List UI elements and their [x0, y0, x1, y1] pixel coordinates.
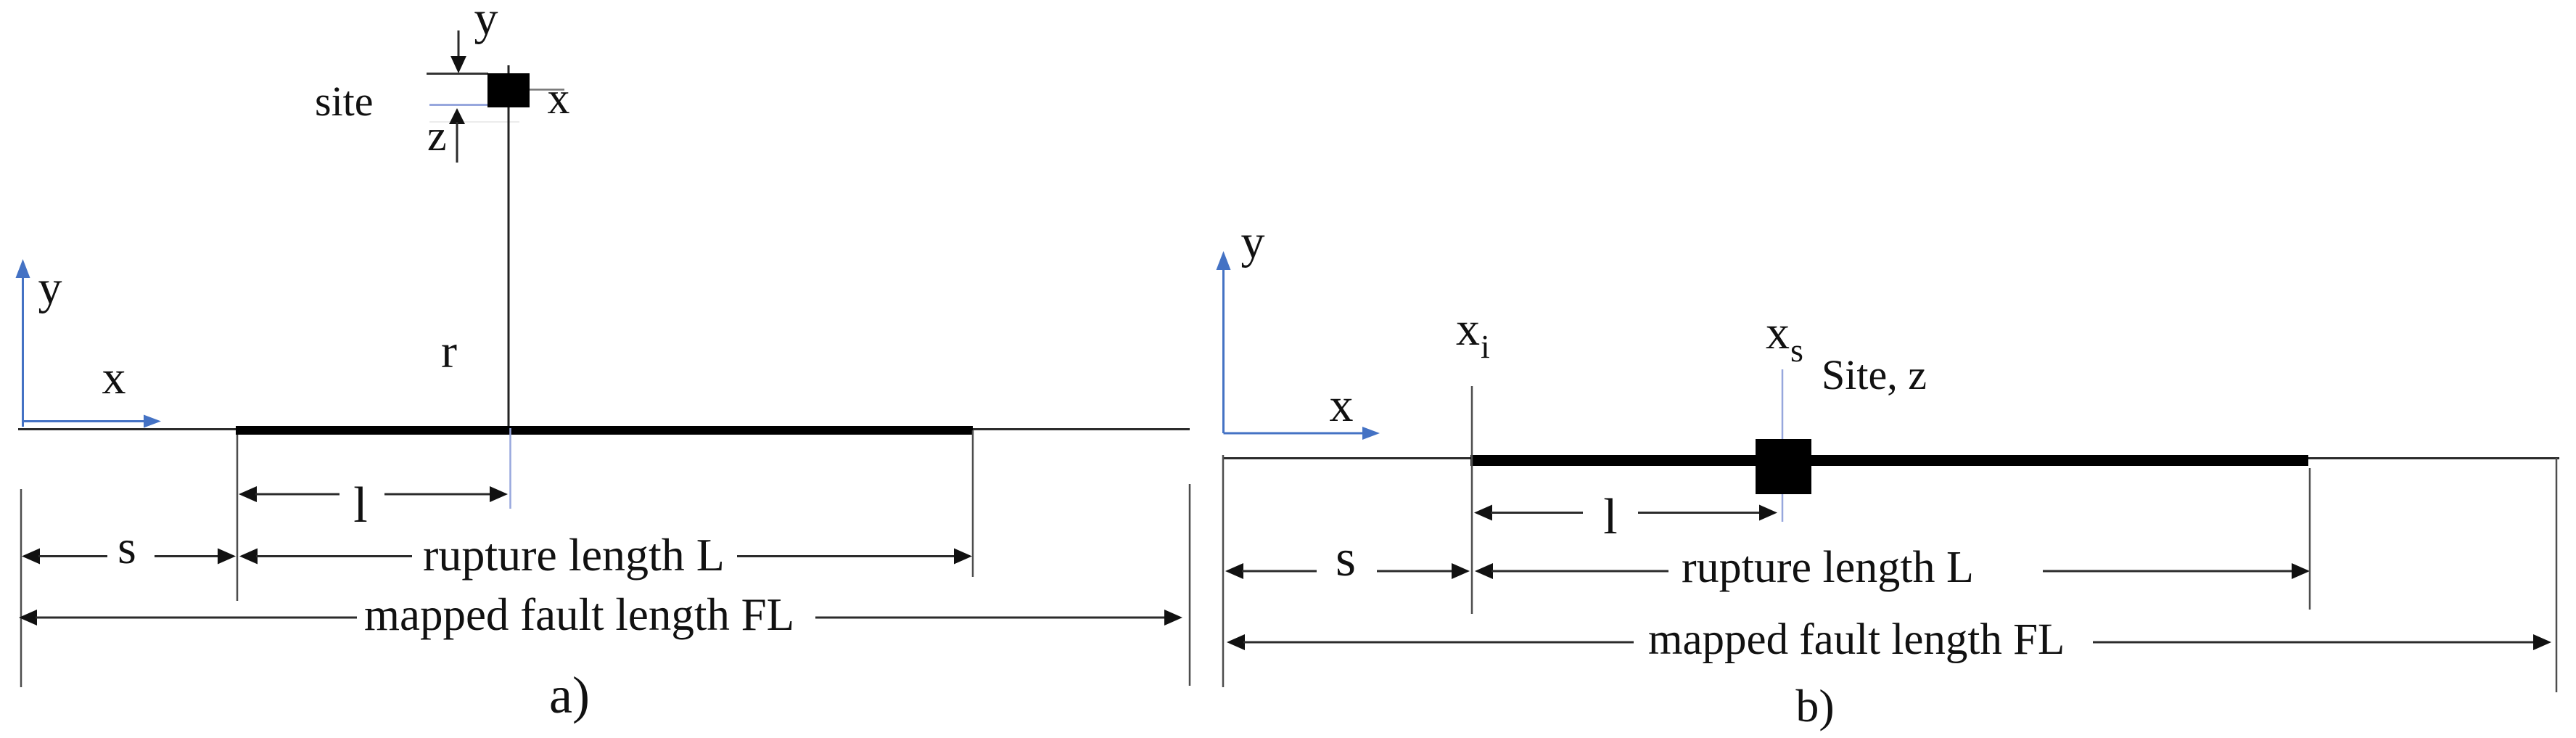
dimension mapped fault length FL (panel a): [19, 610, 1182, 626]
site top edge reference line (panel a): [427, 73, 488, 75]
dimension s (panel a): [22, 549, 236, 565]
svg-text:a): a): [549, 666, 590, 724]
dimension tick rupture end (panel a): [972, 430, 974, 577]
svg-text:s: s: [118, 521, 136, 574]
label x (axis, panel a): [102, 351, 126, 404]
dimension arrow z (site offset, panel a): [449, 108, 465, 163]
svg-text:b): b): [1795, 680, 1834, 731]
label rupture length L (panel a): [423, 529, 725, 581]
svg-text:x: x: [1766, 306, 1790, 359]
site square marker (panel a): [487, 73, 530, 107]
svg-text:x: x: [102, 351, 126, 404]
label x (site, panel a): [548, 74, 570, 123]
dimension tick right FL (panel b): [2556, 458, 2558, 692]
svg-text:x: x: [1330, 379, 1354, 432]
svg-text:s: s: [1336, 529, 1356, 587]
svg-text:Site, z: Site, z: [1822, 351, 1927, 398]
dimension tick left FL (panel a): [20, 489, 22, 687]
svg-text:x: x: [548, 74, 570, 123]
dimension rupture length L (panel a): [239, 549, 972, 565]
label z (panel a): [427, 112, 447, 160]
svg-text:y: y: [474, 0, 498, 45]
blue vertical line at x_s (panel b): [1782, 369, 1784, 522]
label y (axis, panel a): [38, 261, 62, 314]
label x_i (panel b): [1456, 303, 1490, 365]
svg-text:i: i: [1481, 328, 1490, 365]
label y (site offset, panel a): [474, 0, 498, 45]
label rupture length L (panel b): [1682, 543, 1974, 592]
label x (axis, panel b): [1330, 379, 1354, 432]
dimension rupture length L (panel b): [1475, 563, 2310, 579]
svg-text:z: z: [427, 112, 447, 160]
blue site bottom reference line (panel a): [429, 104, 488, 106]
svg-text:rupture length L: rupture length L: [423, 529, 725, 581]
label mapped fault length FL (panel a): [364, 589, 794, 640]
thin mapped fault line (panel a): [18, 428, 1190, 430]
svg-text:l: l: [353, 477, 367, 533]
label y (axis, panel b): [1241, 216, 1265, 268]
svg-text:y: y: [38, 261, 62, 314]
dimension s (panel b): [1225, 563, 1470, 579]
label r (panel a): [441, 325, 457, 378]
svg-text:mapped fault length FL: mapped fault length FL: [1648, 615, 2065, 664]
svg-text:site: site: [315, 78, 374, 125]
dimension tick left (panel b): [1222, 455, 1225, 687]
blue coordinate axes (panel a): [16, 259, 162, 428]
svg-text:l: l: [1603, 489, 1617, 545]
label mapped fault length FL (panel b): [1648, 615, 2065, 664]
label x_s (panel b): [1766, 306, 1803, 369]
site square marker (panel b): [1756, 439, 1811, 494]
svg-text:rupture length L: rupture length L: [1682, 543, 1974, 592]
blue drop line below fault at site x (panel a): [509, 428, 511, 509]
dimension tick rupture end (panel b): [2309, 468, 2311, 610]
label Site, z (panel b): [1822, 351, 1927, 398]
label b) caption: [1795, 680, 1834, 731]
label site (panel a): [315, 78, 374, 125]
thick rupture segment (panel a): [236, 426, 973, 435]
label s (panel a): [118, 521, 136, 574]
dimension mapped fault length FL (panel b): [1227, 634, 2551, 650]
dimension arrow y (site offset, panel a): [450, 30, 466, 73]
label s (panel b): [1336, 529, 1356, 587]
dimension tick right FL (panel a): [1189, 484, 1191, 686]
dimension l (panel b): [1474, 505, 1777, 521]
blue coordinate axes (panel b): [1217, 251, 1380, 440]
label l (panel a): [353, 477, 367, 533]
tick at x_i (panel b): [1471, 386, 1473, 614]
thin mapped fault line (panel b): [1223, 457, 2559, 459]
svg-text:mapped fault length FL: mapped fault length FL: [364, 589, 794, 640]
faint reference line below site (panel a): [429, 121, 519, 123]
label a) caption: [549, 666, 590, 724]
vertical line from site to fault r (panel a): [508, 65, 510, 427]
site x reference line (panel a): [530, 89, 564, 91]
svg-text:x: x: [1456, 303, 1480, 356]
dimension tick rupture start (panel a): [236, 435, 239, 601]
svg-text:r: r: [441, 325, 457, 378]
label l (panel b): [1603, 489, 1617, 545]
svg-text:s: s: [1790, 332, 1803, 369]
svg-text:y: y: [1241, 216, 1265, 268]
thick rupture segment (panel b): [1470, 455, 2308, 466]
dimension l (panel a): [239, 486, 508, 502]
